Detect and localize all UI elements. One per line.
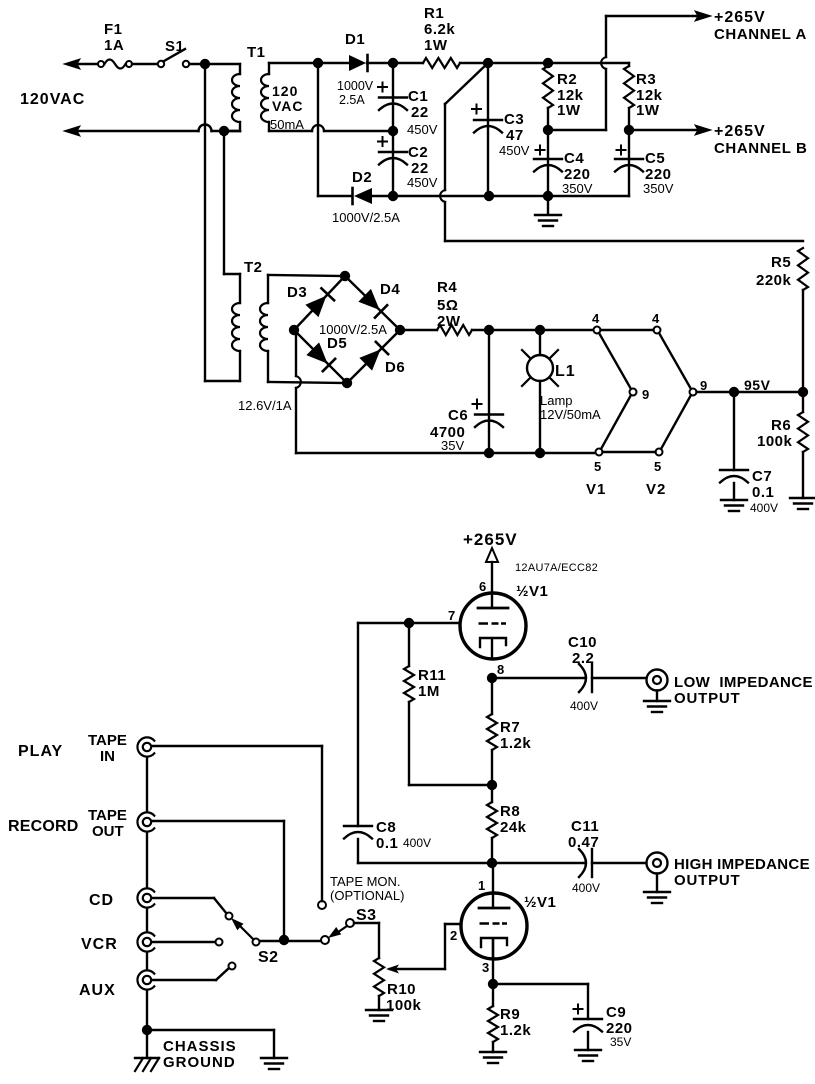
svg-text:R7: R7: [500, 719, 520, 736]
svg-text:R8: R8: [500, 803, 520, 820]
svg-text:TAPE: TAPE: [88, 732, 127, 749]
svg-text:4: 4: [652, 311, 660, 326]
svg-text:120VAC: 120VAC: [20, 91, 85, 108]
svg-text:R1: R1: [424, 5, 444, 22]
svg-text:PLAY: PLAY: [18, 743, 63, 760]
svg-text:½V1: ½V1: [516, 583, 548, 600]
svg-text:R5: R5: [771, 254, 791, 271]
svg-text:1A: 1A: [104, 37, 124, 54]
svg-text:AUX: AUX: [79, 982, 116, 999]
svg-text:12V/50mA: 12V/50mA: [540, 407, 601, 422]
svg-text:OUT: OUT: [92, 823, 124, 840]
svg-text:T2: T2: [244, 259, 263, 276]
svg-text:35V: 35V: [610, 1035, 631, 1049]
svg-text:9: 9: [642, 387, 650, 402]
svg-text:+265V: +265V: [714, 9, 766, 26]
svg-text:HIGH IMPEDANCE: HIGH IMPEDANCE: [674, 856, 810, 873]
svg-text:TAPE MON.: TAPE MON.: [330, 874, 401, 889]
svg-text:R2: R2: [557, 71, 577, 88]
svg-text:C3: C3: [504, 111, 524, 128]
svg-text:120: 120: [272, 83, 298, 99]
svg-text:1000V: 1000V: [337, 79, 374, 93]
svg-text:6.2k: 6.2k: [424, 21, 455, 38]
svg-text:2.5A: 2.5A: [339, 93, 365, 107]
svg-text:GROUND: GROUND: [163, 1054, 236, 1071]
svg-text:450V: 450V: [407, 175, 438, 190]
svg-text:400V: 400V: [570, 699, 598, 713]
svg-text:400V: 400V: [572, 881, 600, 895]
svg-text:2.2: 2.2: [572, 650, 594, 667]
svg-text:350V: 350V: [643, 181, 674, 196]
svg-text:0.47: 0.47: [568, 834, 599, 851]
svg-text:D1: D1: [345, 31, 365, 48]
svg-text:0.1: 0.1: [376, 835, 398, 852]
svg-text:LOW IMPEDANCE: LOW IMPEDANCE: [674, 674, 813, 691]
svg-text:S3: S3: [356, 907, 377, 924]
svg-text:D5: D5: [327, 335, 347, 352]
svg-text:12AU7A/ECC82: 12AU7A/ECC82: [515, 562, 598, 574]
svg-text:C8: C8: [376, 819, 396, 836]
svg-text:1W: 1W: [636, 102, 660, 119]
svg-text:1M: 1M: [418, 683, 440, 700]
svg-text:47: 47: [506, 127, 524, 144]
svg-text:½V1: ½V1: [524, 894, 556, 911]
svg-text:9: 9: [700, 378, 708, 393]
svg-text:450V: 450V: [499, 143, 530, 158]
svg-text:R6: R6: [771, 417, 791, 434]
svg-text:C6: C6: [448, 407, 468, 424]
svg-text:C2: C2: [408, 144, 428, 161]
svg-text:35V: 35V: [441, 438, 464, 453]
svg-text:1W: 1W: [557, 102, 581, 119]
svg-text:1.2k: 1.2k: [500, 735, 531, 752]
svg-text:V2: V2: [646, 481, 666, 498]
svg-text:TAPE: TAPE: [88, 807, 127, 824]
svg-text:220k: 220k: [756, 272, 792, 289]
svg-text:C1: C1: [408, 88, 428, 105]
svg-text:RECORD: RECORD: [8, 818, 79, 835]
svg-text:CHANNEL B: CHANNEL B: [714, 140, 807, 157]
svg-text:50mA: 50mA: [270, 117, 304, 132]
svg-text:CD: CD: [89, 892, 114, 909]
svg-text:1W: 1W: [424, 37, 448, 54]
svg-text:R11: R11: [418, 667, 446, 684]
svg-text:C7: C7: [752, 468, 772, 485]
svg-text:100k: 100k: [386, 997, 422, 1014]
svg-text:OUTPUT: OUTPUT: [674, 872, 740, 889]
svg-text:+265V: +265V: [714, 123, 766, 140]
svg-text:1000V/2.5A: 1000V/2.5A: [319, 322, 387, 337]
svg-text:CHASSIS: CHASSIS: [163, 1038, 237, 1055]
svg-text:5Ω: 5Ω: [437, 297, 458, 314]
svg-text:22: 22: [411, 104, 429, 121]
svg-text:S1: S1: [165, 38, 184, 55]
svg-text:D3: D3: [287, 284, 307, 301]
svg-text:1: 1: [478, 878, 486, 893]
svg-text:D6: D6: [385, 359, 405, 376]
svg-text:450V: 450V: [407, 122, 438, 137]
svg-text:1000V/2.5A: 1000V/2.5A: [332, 210, 400, 225]
svg-text:3: 3: [482, 960, 490, 975]
svg-text:CHANNEL A: CHANNEL A: [714, 26, 807, 43]
svg-text:7: 7: [448, 608, 456, 623]
svg-text:400V: 400V: [750, 501, 778, 515]
svg-text:D4: D4: [380, 281, 400, 298]
svg-text:C4: C4: [564, 150, 584, 167]
svg-text:R9: R9: [500, 1006, 520, 1023]
svg-text:VAC: VAC: [272, 98, 304, 114]
svg-text:C10: C10: [568, 634, 597, 651]
svg-text:2: 2: [450, 928, 458, 943]
svg-text:IN: IN: [100, 748, 115, 765]
svg-text:R4: R4: [437, 279, 457, 296]
svg-text:95V: 95V: [744, 377, 771, 393]
svg-text:(OPTIONAL): (OPTIONAL): [330, 888, 404, 903]
svg-text:L1: L1: [555, 363, 576, 380]
svg-text:8: 8: [497, 662, 505, 677]
svg-text:C11: C11: [571, 818, 599, 835]
svg-text:C9: C9: [606, 1004, 626, 1021]
svg-text:F1: F1: [104, 21, 123, 38]
svg-text:S2: S2: [258, 949, 279, 966]
svg-text:100k: 100k: [757, 433, 793, 450]
svg-text:2W: 2W: [437, 313, 461, 330]
svg-text:VCR: VCR: [81, 936, 118, 953]
svg-text:D2: D2: [352, 169, 372, 186]
svg-text:0.1: 0.1: [752, 484, 774, 501]
svg-text:R3: R3: [636, 71, 656, 88]
svg-text:1.2k: 1.2k: [500, 1022, 531, 1039]
svg-text:Lamp: Lamp: [540, 393, 573, 408]
svg-text:+265V: +265V: [463, 530, 518, 549]
svg-text:24k: 24k: [500, 819, 527, 836]
svg-text:V1: V1: [586, 481, 606, 498]
svg-text:4: 4: [592, 311, 600, 326]
svg-text:5: 5: [594, 459, 602, 474]
svg-text:T1: T1: [247, 44, 266, 61]
svg-text:OUTPUT: OUTPUT: [674, 690, 740, 707]
svg-text:350V: 350V: [562, 181, 593, 196]
svg-text:12.6V/1A: 12.6V/1A: [238, 398, 292, 413]
svg-text:R10: R10: [387, 981, 416, 998]
svg-text:400V: 400V: [403, 836, 431, 850]
svg-text:5: 5: [654, 459, 662, 474]
svg-text:6: 6: [479, 579, 487, 594]
svg-text:C5: C5: [645, 150, 665, 167]
